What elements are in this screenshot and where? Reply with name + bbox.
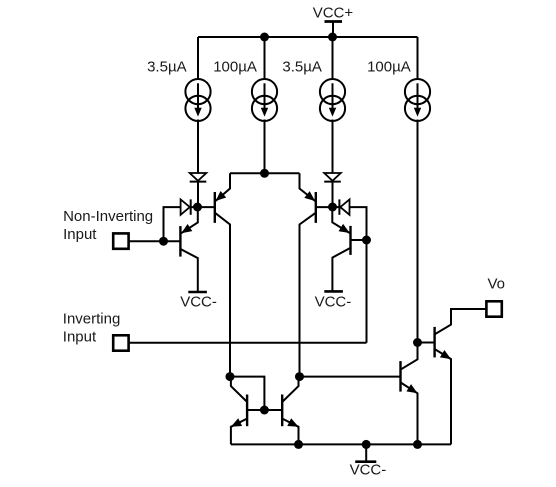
- wire VCC- stub: [365, 444, 367, 461]
- transistor Q4 bar: [349, 226, 351, 255]
- transistor Q8 collector (to Vo): [435, 309, 485, 334]
- wire D3 cathode to node A: [191, 206, 198, 208]
- diode D3 (left input clamp): [181, 199, 190, 214]
- wire I1 to diode D1: [197, 120, 199, 174]
- svg-text:Vo: Vo: [488, 276, 506, 293]
- VCC- symbol under Q1: [188, 291, 207, 294]
- transistor Q1 emitter arrow (PNP): [181, 224, 192, 233]
- transistor Q5 emitter (to bottom rail): [231, 419, 247, 445]
- svg-text:VCC+: VCC+: [313, 4, 354, 21]
- wire mirror base rail: [247, 409, 282, 411]
- transistor Q1 emitter (from node A): [181, 207, 198, 233]
- terminal pad Vo: [486, 301, 501, 316]
- junction I4 / Q7 collector / Q8 base: [413, 338, 422, 347]
- VCC- symbol under Q4: [324, 290, 343, 293]
- transistor Q3 emitter arrow (PNP): [304, 191, 315, 201]
- transistor Q8 emitter (to bottom rail): [435, 349, 451, 444]
- transistor Q5 emitter arrow (NPN): [231, 418, 242, 427]
- current source I1 3.5uA: [185, 79, 210, 104]
- transistor Q7 bar: [399, 361, 401, 392]
- node A junction (D1/D3/Q1e/Q2b): [193, 203, 202, 212]
- transistor Q7 emitter (to bottom rail): [401, 383, 417, 445]
- transistor Q1 collector: [181, 249, 198, 292]
- wire D3 anode to non-inverting input node: [164, 207, 181, 241]
- diode D4 (right input clamp): [340, 199, 349, 214]
- transistor Q4 emitter arrow (PNP): [339, 224, 350, 233]
- junction non-inverting input / D3 branch: [159, 237, 168, 246]
- junction Q4 base node: [362, 236, 371, 245]
- wire bottom rail: [231, 443, 451, 445]
- junction Q2 collector / Q5 collector: [226, 372, 235, 381]
- wire I2 to emitter rail node: [264, 120, 266, 174]
- current source I3 3.5uA: [320, 79, 345, 104]
- svg-text:Input: Input: [63, 226, 97, 243]
- junction top rail / 100uA column: [260, 33, 269, 42]
- terminal pad inverting input: [113, 335, 128, 350]
- junction bottom rail / Q6 emitter: [294, 440, 303, 449]
- wire D2 to node B: [332, 182, 334, 207]
- svg-text:3.5µA: 3.5µA: [147, 58, 187, 75]
- wire node B to Q3 base: [316, 206, 333, 208]
- current source I2 100uA: [252, 79, 277, 104]
- transistor Q1 bar: [179, 226, 181, 257]
- transistor Q5 collector: [231, 377, 247, 402]
- svg-text:100µA: 100µA: [213, 58, 257, 75]
- transistor Q8 bar: [433, 327, 435, 358]
- wire rail to current source I2: [264, 37, 266, 80]
- wire Q4 base to input branch: [351, 239, 367, 241]
- wire drive line to Q7 base: [300, 376, 401, 378]
- svg-text:Non-Inverting: Non-Inverting: [63, 208, 153, 225]
- wire rail to current source I3: [332, 37, 334, 80]
- junction bottom rail / Q7 emitter: [413, 440, 422, 449]
- transistor Q6 emitter arrow (NPN): [287, 418, 298, 427]
- current source I4 100uA: [405, 79, 430, 104]
- transistor Q2 emitter arrow (PNP): [216, 191, 227, 201]
- svg-text:3.5µA: 3.5µA: [282, 58, 322, 75]
- wire Q8 base: [418, 342, 435, 344]
- wire D4 anode down to Q4 base node: [350, 207, 367, 343]
- transistor Q2 emitter (to tail rail): [216, 173, 231, 201]
- transistor Q7 emitter arrow (NPN): [406, 384, 417, 393]
- svg-text:VCC-: VCC-: [350, 462, 387, 479]
- junction bottom rail / VCC- stub: [362, 440, 371, 449]
- diode D2 (below I3): [324, 173, 341, 181]
- svg-text:100µA: 100µA: [367, 58, 411, 75]
- transistor Q8 emitter arrow (NPN): [440, 350, 451, 359]
- VCC+ power rail symbol (bar): [325, 20, 343, 23]
- wire diff pair emitter rail: [230, 172, 300, 174]
- junction tail rail / I2: [260, 169, 269, 178]
- wire rail to current source I4: [417, 37, 419, 80]
- transistor Q6 emitter (to bottom rail): [283, 419, 299, 445]
- wire rail to current source I1: [197, 37, 199, 80]
- diode D1 (below I1): [190, 173, 207, 181]
- wire D4 cathode to node B: [333, 206, 340, 208]
- transistor Q6 bar: [281, 395, 283, 427]
- terminal pad non-inverting input: [113, 233, 128, 248]
- junction top rail / VCC+ column: [328, 33, 337, 42]
- svg-text:Input: Input: [63, 329, 97, 346]
- junction Q3 collector / Q6 collector / drive line: [295, 372, 304, 381]
- wire node A to Q2 base: [198, 206, 215, 208]
- wire I3 to diode D2: [332, 120, 334, 174]
- svg-text:VCC-: VCC-: [315, 293, 352, 310]
- transistor Q2 bar: [214, 192, 216, 223]
- transistor Q5 bar: [246, 395, 248, 427]
- transistor Q4 collector: [332, 248, 349, 291]
- junction mirror bases: [260, 406, 269, 415]
- wire inverting input to Q4 base branch: [129, 342, 366, 344]
- wire Q2 collector node to mirror bases: [230, 377, 264, 410]
- wire VCC+ stub to top rail: [332, 22, 334, 37]
- wire top supply rail: [198, 36, 418, 38]
- wire non-inverting input to Q1 base: [129, 240, 180, 242]
- transistor Q3 bar: [315, 192, 317, 223]
- VCC- symbol bottom: [355, 460, 376, 463]
- transistor Q4 emitter (from node B): [332, 207, 349, 233]
- wire D1 to node A: [197, 182, 199, 207]
- transistor Q7 collector: [401, 343, 417, 370]
- svg-text:VCC-: VCC-: [180, 293, 217, 310]
- node B junction (D2/D4/Q3b/Q4e): [328, 203, 337, 212]
- transistor Q2 collector (down to mirror): [216, 213, 231, 376]
- transistor Q6 collector: [283, 377, 299, 402]
- wire I4 down to output stage node: [417, 120, 419, 343]
- transistor Q3 emitter (to tail rail): [300, 173, 316, 201]
- svg-text:Inverting: Inverting: [63, 311, 121, 328]
- transistor Q3 collector (down to mirror): [300, 213, 316, 376]
